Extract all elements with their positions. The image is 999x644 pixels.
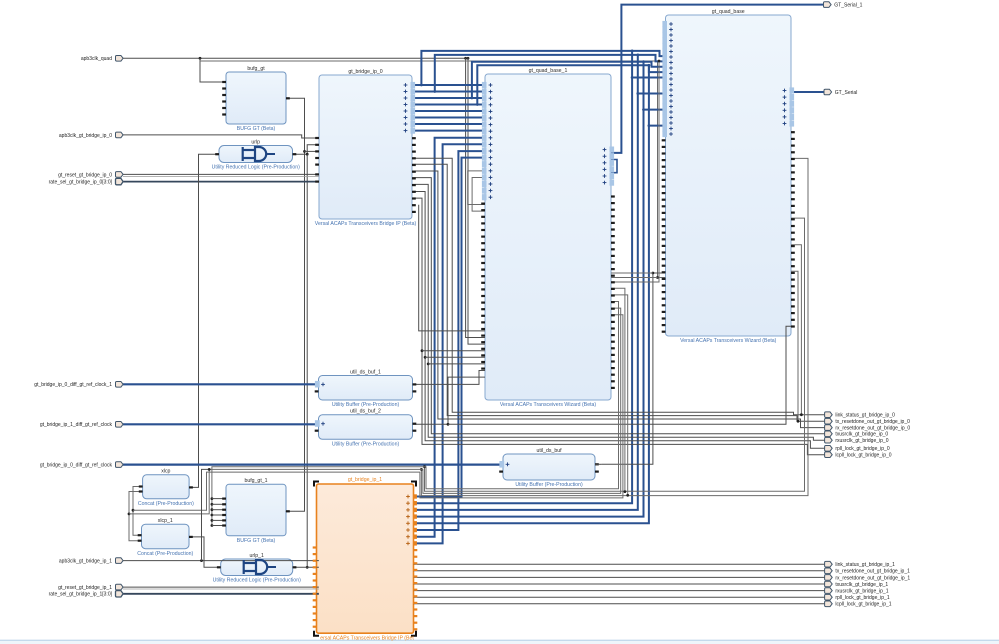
svg-text:rate_sel_gt_bridge_ip_1[3:0]: rate_sel_gt_bridge_ip_1[3:0]	[49, 592, 113, 598]
svg-text:gt_reset_gt_bridge_ip_0: gt_reset_gt_bridge_ip_0	[58, 172, 112, 178]
svg-text:gt_reset_gt_bridge_ip_1: gt_reset_gt_bridge_ip_1	[58, 585, 112, 591]
svg-text:link_status_gt_bridge_ip_0: link_status_gt_bridge_ip_0	[835, 413, 895, 419]
svg-text:apb3clk_gt_bridge_ip_1: apb3clk_gt_bridge_ip_1	[59, 559, 112, 565]
svg-text:lcpll_lock_gt_bridge_ip_0: lcpll_lock_gt_bridge_ip_0	[835, 453, 891, 459]
svg-text:rxusrclk_gt_bridge_ip_1: rxusrclk_gt_bridge_ip_1	[835, 589, 888, 595]
svg-text:rpll_lock_gt_bridge_ip_1: rpll_lock_gt_bridge_ip_1	[835, 595, 889, 601]
svg-text:Utility Buffer (Pre-Production: Utility Buffer (Pre-Production)	[332, 442, 400, 448]
svg-text:xlcp_1: xlcp_1	[158, 518, 173, 524]
svg-text:gt_bridge_ip_1_diff_gt_ref_clo: gt_bridge_ip_1_diff_gt_ref_clock	[40, 422, 113, 428]
svg-text:util_ds_buf_2: util_ds_buf_2	[350, 409, 381, 415]
svg-text:Versal ACAPs Transceivers Wiza: Versal ACAPs Transceivers Wizard (Beta)	[680, 338, 777, 344]
svg-text:Versal ACAPs Transceivers Wiza: Versal ACAPs Transceivers Wizard (Beta)	[500, 402, 597, 408]
svg-text:Versal ACAPs Transceivers Brid: Versal ACAPs Transceivers Bridge IP (Bet…	[315, 221, 417, 227]
svg-text:ersal ACAPs Transceivers Bridg: ersal ACAPs Transceivers Bridge IP (Bet	[320, 636, 414, 642]
svg-text:tx_resetdone_out_gt_bridge_ip_: tx_resetdone_out_gt_bridge_ip_0	[835, 419, 910, 425]
svg-text:Utility Buffer (Pre-Production: Utility Buffer (Pre-Production)	[515, 482, 583, 488]
svg-text:Concat (Pre-Production): Concat (Pre-Production)	[138, 501, 194, 507]
svg-text:xlcp: xlcp	[161, 469, 170, 475]
svg-text:lcpll_lock_gt_bridge_ip_1: lcpll_lock_gt_bridge_ip_1	[835, 602, 891, 608]
svg-text:tx_resetdone_out_gt_bridge_ip_: tx_resetdone_out_gt_bridge_ip_1	[835, 569, 910, 575]
svg-text:GT_Serial: GT_Serial	[835, 90, 858, 96]
svg-text:urlp_1: urlp_1	[249, 553, 264, 559]
svg-text:bufg_gt: bufg_gt	[247, 66, 265, 72]
svg-text:gt_bridge_ip_1: gt_bridge_ip_1	[348, 477, 382, 483]
svg-text:txusrclk_gt_bridge_ip_0: txusrclk_gt_bridge_ip_0	[835, 432, 888, 438]
svg-text:rpll_lock_gt_bridge_ip_0: rpll_lock_gt_bridge_ip_0	[835, 446, 889, 452]
svg-text:gt_bridge_ip_0_diff_gt_ref_clo: gt_bridge_ip_0_diff_gt_ref_clock	[40, 463, 113, 469]
svg-text:rx_resetdone_out_gt_bridge_ip_: rx_resetdone_out_gt_bridge_ip_0	[835, 426, 910, 432]
svg-text:Concat (Pre-Production): Concat (Pre-Production)	[137, 551, 193, 557]
svg-text:BUFG GT (Beta): BUFG GT (Beta)	[237, 538, 276, 544]
svg-text:util_ds_buf_1: util_ds_buf_1	[350, 369, 381, 375]
svg-text:gt_bridge_ip_0_diff_gt_ref_clo: gt_bridge_ip_0_diff_gt_ref_clock_1	[34, 382, 112, 388]
svg-text:gt_quad_base_1: gt_quad_base_1	[529, 68, 568, 74]
svg-text:GT_Serial_1: GT_Serial_1	[834, 3, 862, 9]
svg-text:Utility Buffer (Pre-Production: Utility Buffer (Pre-Production)	[332, 402, 400, 408]
svg-text:util_ds_buf: util_ds_buf	[536, 448, 562, 454]
svg-text:urlp: urlp	[251, 139, 260, 145]
svg-text:txusrclk_gt_bridge_ip_1: txusrclk_gt_bridge_ip_1	[835, 582, 888, 588]
svg-text:Utility Reduced Logic (Pre-Pro: Utility Reduced Logic (Pre-Production)	[212, 165, 300, 171]
svg-text:bufg_gt_1: bufg_gt_1	[244, 478, 267, 484]
svg-text:rx_resetdone_out_gt_bridge_ip_: rx_resetdone_out_gt_bridge_ip_1	[835, 575, 910, 581]
svg-text:apb3clk_quad: apb3clk_quad	[81, 56, 112, 62]
svg-text:Utility Reduced Logic (Pre-Pro: Utility Reduced Logic (Pre-Production)	[213, 578, 301, 584]
svg-text:link_status_gt_bridge_ip_1: link_status_gt_bridge_ip_1	[835, 562, 895, 568]
svg-text:apb3clk_gt_bridge_ip_0: apb3clk_gt_bridge_ip_0	[59, 133, 112, 139]
svg-text:gt_bridge_ip_0: gt_bridge_ip_0	[348, 69, 382, 75]
svg-text:BUFG GT (Beta): BUFG GT (Beta)	[237, 126, 276, 132]
svg-text:rate_sel_gt_bridge_ip_0[3:0]: rate_sel_gt_bridge_ip_0[3:0]	[49, 180, 113, 186]
svg-text:gt_quad_base: gt_quad_base	[712, 9, 745, 15]
svg-text:rxusrclk_gt_bridge_ip_0: rxusrclk_gt_bridge_ip_0	[835, 438, 888, 444]
